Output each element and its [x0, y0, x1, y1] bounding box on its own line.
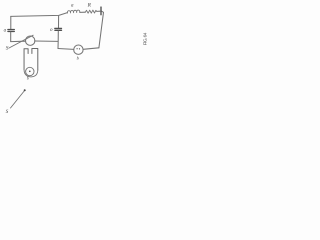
capacitor C1 [8, 30, 14, 32]
resistor R zigzag [85, 10, 97, 13]
electrode lead left [24, 49, 28, 70]
wire left vertical upper [10, 16, 12, 29]
svg-text:R: R [87, 3, 92, 9]
wire C2 branch top [58, 16, 60, 28]
wire bottom horizontal right [83, 48, 99, 50]
wire right vertical [99, 11, 104, 48]
svg-text:b: b [27, 76, 29, 81]
tube rounded bottom [24, 70, 38, 77]
svg-text:S: S [6, 45, 9, 51]
wire galvanometer to junction [35, 40, 58, 42]
galvanometer circle G [26, 36, 35, 45]
ammeter circle [74, 45, 83, 54]
wire C2 branch bottom [57, 31, 59, 48]
wire inductor to resistor [80, 11, 86, 13]
arrow pointer bottom left [11, 91, 25, 108]
terminal bar [100, 7, 102, 15]
inductor L [67, 10, 80, 13]
electrode lead right [32, 49, 38, 71]
wire bottom horizontal left [58, 48, 74, 51]
bulb circle with dot [26, 67, 34, 75]
wire bottom-left horizontal to galvanometer [11, 40, 26, 42]
leader arrow S through circle [9, 35, 33, 48]
svg-text:FIG. 64: FIG. 64 [143, 32, 149, 45]
capacitor C2 [55, 28, 62, 30]
ammeter needle dot [77, 48, 78, 49]
wire resistor to terminal [97, 10, 101, 12]
wire left vertical lower [10, 32, 12, 41]
wire top horizontal [11, 13, 68, 17]
